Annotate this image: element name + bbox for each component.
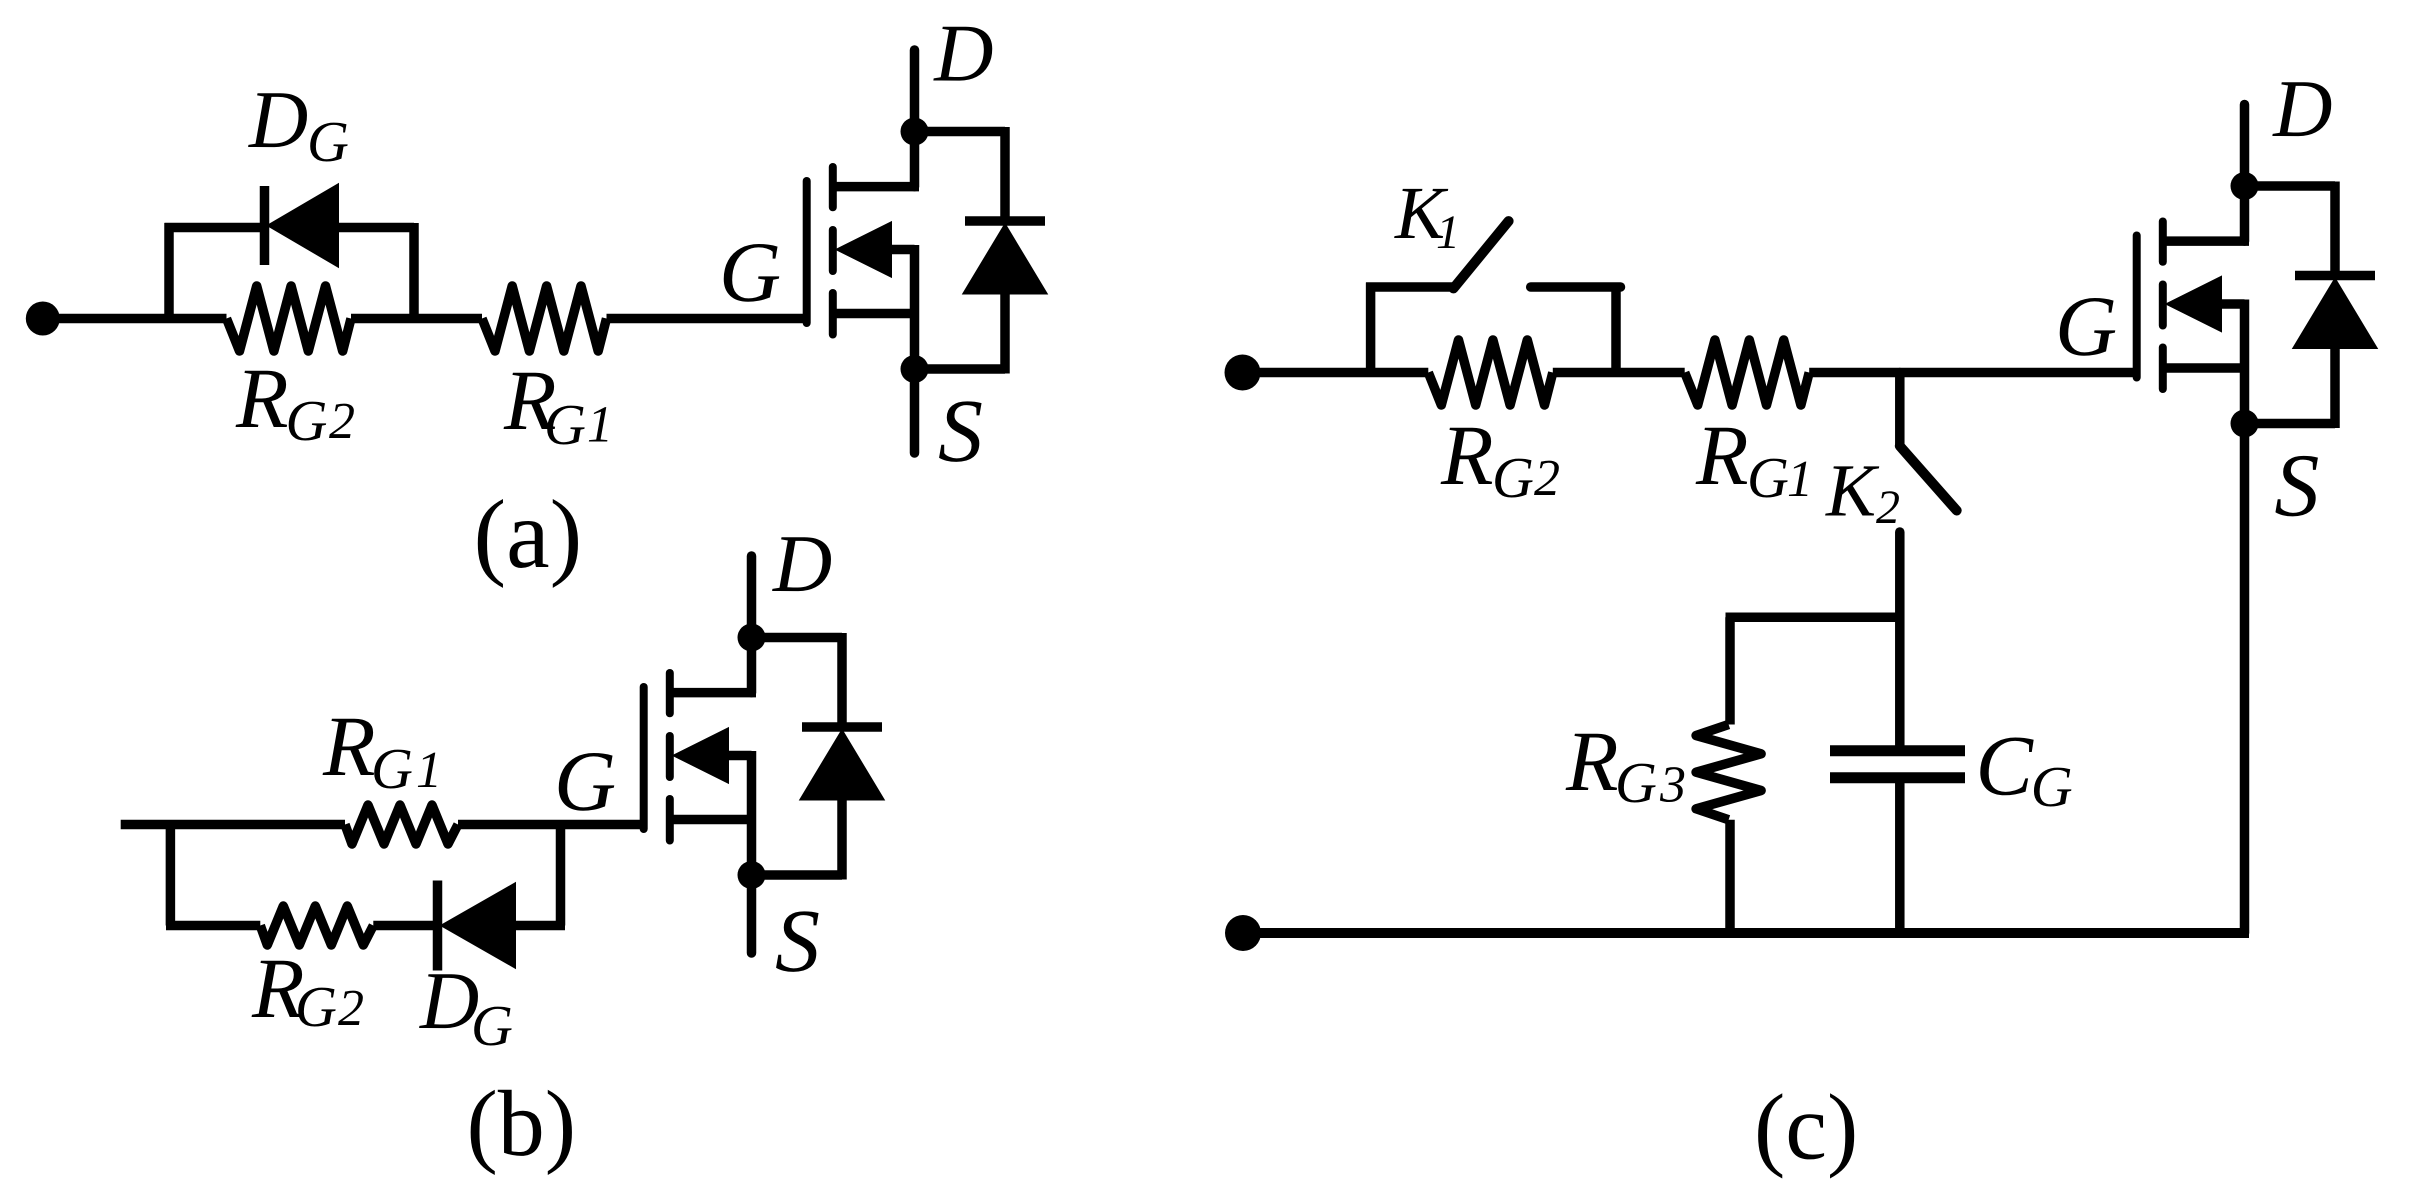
transistor Q1 (a) source-body vertical: [910, 245, 920, 369]
body diode Q2 (b) anode triangle: [801, 731, 884, 800]
transistor Q1 (a) drain lead: [833, 182, 919, 192]
transistor Q3 (c) source lead: [2163, 363, 2245, 373]
svg-text:D: D: [2272, 63, 2332, 154]
svg-text:S: S: [938, 382, 983, 481]
body diode Q1 (a) bottom lead: [1000, 294, 1010, 374]
wire drain to body diode Q1 (a): [915, 127, 1006, 137]
svg-text:1: 1: [1787, 451, 1813, 508]
body diode Q3 (c) bottom lead: [2330, 348, 2340, 428]
svg-text:S: S: [775, 892, 820, 991]
transistor Q1 (a) channel bar top: [829, 167, 837, 207]
svg-text:2: 2: [1534, 450, 1560, 507]
resistor RG2 (b): [260, 906, 373, 945]
wire RG1 to gate (b): [458, 820, 644, 830]
svg-text:K: K: [1825, 450, 1880, 533]
transistor Q1 (a) body lead: [891, 245, 915, 255]
transistor Q1 (a) source lead: [833, 309, 915, 319]
transistor Q2 (b) source lead: [670, 815, 752, 825]
svg-text:1: 1: [416, 742, 442, 799]
node drain Q3 (c): [2231, 172, 2259, 200]
transistor Q3 (c) body lead: [2221, 299, 2245, 309]
wire drain to body diode Q3 (c): [2245, 181, 2336, 191]
wire switch-box right vertical (c): [1611, 283, 1621, 373]
transistor Q2 (b) channel bar top: [666, 673, 674, 713]
transistor Q2 (b) channel bar bottom: [666, 799, 674, 841]
node input terminal (c): [1225, 355, 1261, 391]
svg-text:G: G: [1615, 750, 1657, 815]
svg-text:G: G: [1492, 445, 1534, 510]
body diode Q2 (b) top lead: [837, 633, 847, 727]
node bottom rail terminal (c): [1225, 915, 1261, 951]
wire body diode to source Q3 (c): [2245, 419, 2336, 429]
body diode Q2 (b) bottom lead: [837, 800, 847, 880]
transistor Q3 (c) gate line: [2133, 236, 2141, 378]
svg-text:G: G: [286, 388, 328, 453]
wire RG2 to RG1 (c): [1553, 368, 1685, 378]
svg-text:1: 1: [587, 397, 613, 454]
node source Q2 (b): [738, 861, 766, 889]
svg-text:(b): (b): [467, 1072, 577, 1176]
resistor RG1 (a): [482, 286, 607, 351]
transistor Q2 (b) body arrow: [674, 729, 728, 783]
wire RG1 to gate (c): [1809, 368, 2137, 378]
wire switch K1 right contact (c): [1531, 282, 1621, 292]
svg-text:R: R: [235, 350, 289, 446]
svg-text:R: R: [322, 698, 376, 794]
transistor Q2 (b) gate line: [640, 687, 648, 829]
wire bottom rail (c): [1243, 928, 2249, 938]
node drain Q2 (b): [738, 624, 766, 652]
svg-text:G: G: [1747, 445, 1789, 510]
wire switch K1 left contact (c): [1366, 282, 1453, 292]
wire body diode to source Q1 (a): [915, 364, 1006, 374]
capacitor CG top plate (c): [1830, 745, 1965, 756]
transistor Q1 (a) body arrow: [837, 223, 891, 277]
transistor Q2 (b) drain lead: [670, 688, 756, 698]
wire RG1 to gate (a): [607, 314, 807, 324]
diode DG (b) anode triangle: [442, 884, 516, 968]
diode DG (a) cathode bar: [260, 186, 270, 265]
transistor Q3 (c) channel bar top: [2159, 222, 2167, 262]
wire switch K2 upper stub (c): [1895, 373, 1905, 445]
wire body diode to source Q2 (b): [752, 870, 843, 880]
transistor Q1 (a) channel bar bottom: [829, 293, 837, 335]
transistor Q3 (c) body arrow: [2167, 277, 2221, 331]
svg-text:R: R: [1695, 407, 1749, 503]
wire RG3 branch horizontal (c): [1726, 613, 1900, 623]
svg-text:G: G: [371, 736, 413, 801]
svg-text:D: D: [772, 518, 832, 609]
wire source terminal Q2 (b): [747, 875, 757, 953]
wire branch left to RG2 (b): [166, 921, 260, 931]
wire parallel-box left vertical (a): [164, 223, 174, 319]
wire input to RG1 (b): [121, 820, 345, 830]
wire parallel-box left vertical (b): [166, 825, 176, 926]
node source Q1 (a): [901, 355, 929, 383]
transistor Q3 (c) channel bar middle: [2159, 285, 2167, 326]
body diode Q1 (a) top lead: [1000, 127, 1010, 221]
svg-text:1: 1: [1436, 206, 1460, 259]
wire RG3 bottom lead (c): [1725, 820, 1735, 933]
svg-text:G: G: [295, 974, 337, 1039]
body diode Q3 (c) cathode bar: [2295, 271, 2375, 281]
svg-text:D: D: [933, 8, 993, 99]
transistor Q2 (b) body lead: [728, 751, 752, 761]
wire input to RG2 (c): [1243, 368, 1428, 378]
resistor RG1 (c): [1685, 340, 1810, 405]
svg-text:G: G: [719, 224, 781, 320]
wire drain to body diode Q2 (b): [752, 633, 843, 643]
wire CG bottom lead (c): [1895, 783, 1905, 933]
wire source terminal Q1 (a): [910, 369, 920, 453]
resistor RG1 (b): [345, 805, 458, 844]
svg-text:2: 2: [338, 980, 364, 1037]
body diode Q1 (a) cathode bar: [965, 216, 1045, 226]
svg-text:D: D: [248, 74, 308, 165]
capacitor CG bottom plate (c): [1830, 772, 1965, 783]
svg-text:2: 2: [1876, 481, 1900, 534]
wire drain terminal Q3 (c): [2240, 105, 2250, 242]
node source Q3 (c): [2231, 410, 2259, 438]
svg-text:G: G: [471, 993, 513, 1058]
wire DG to branch right (b): [511, 921, 565, 931]
resistor RG3 (c): [1696, 725, 1761, 820]
svg-text:C: C: [1976, 717, 2035, 813]
svg-text:R: R: [1440, 407, 1494, 503]
body diode Q3 (c) anode triangle: [2294, 279, 2377, 348]
transistor Q3 (c) source-body vertical: [2240, 300, 2250, 424]
transistor Q3 (c) channel bar bottom: [2159, 348, 2167, 390]
wire switch K2 lower stub (c): [1895, 532, 1905, 745]
wire RG2 to DG (b): [373, 921, 433, 931]
wire RG2 to RG1 (a): [351, 314, 482, 324]
wire diode branch left (a): [165, 223, 263, 233]
svg-text:R: R: [1565, 713, 1619, 809]
transistor Q2 (b) channel bar middle: [666, 736, 674, 777]
svg-text:G: G: [307, 109, 349, 174]
switch K2 blade (c): [1900, 446, 1957, 511]
body diode Q3 (c) top lead: [2330, 182, 2340, 276]
svg-text:G: G: [554, 733, 616, 829]
wire parallel-box right vertical (a): [409, 223, 419, 319]
diode DG (a) anode triangle: [268, 185, 338, 267]
resistor RG2 (a): [227, 286, 352, 351]
svg-text:S: S: [2274, 436, 2319, 535]
wire drain terminal Q1 (a): [910, 50, 920, 187]
svg-text:(c): (c): [1754, 1076, 1858, 1180]
transistor Q2 (b) source-body vertical: [747, 751, 757, 875]
switch K1 blade (c): [1453, 221, 1508, 288]
body diode Q2 (b) cathode bar: [802, 722, 882, 732]
svg-text:3: 3: [1659, 757, 1686, 814]
svg-text:G: G: [544, 392, 586, 457]
transistor Q1 (a) channel bar middle: [829, 230, 837, 271]
wire parallel-box right vertical (b): [556, 825, 566, 926]
transistor Q1 (a) gate line: [803, 181, 811, 323]
node drain Q1 (a): [901, 118, 929, 146]
wire input to RG2 (a): [43, 314, 227, 324]
svg-text:G: G: [2031, 754, 2073, 819]
node input terminal (a): [26, 302, 60, 336]
diode DG (b) cathode bar: [433, 881, 443, 971]
wire source terminal Q3 (c): [2240, 424, 2250, 934]
svg-text:G: G: [2055, 278, 2117, 374]
body diode Q1 (a) anode triangle: [964, 225, 1047, 294]
transistor Q3 (c) drain lead: [2163, 236, 2249, 246]
wire diode branch right (a): [338, 223, 414, 233]
wire switch-box left vertical (c): [1366, 283, 1376, 373]
svg-text:2: 2: [329, 393, 355, 450]
resistor RG2 (c): [1428, 340, 1553, 405]
wire drain terminal Q2 (b): [747, 556, 757, 693]
wire RG3 top lead (c): [1725, 617, 1735, 724]
svg-text:(a): (a): [474, 481, 583, 589]
